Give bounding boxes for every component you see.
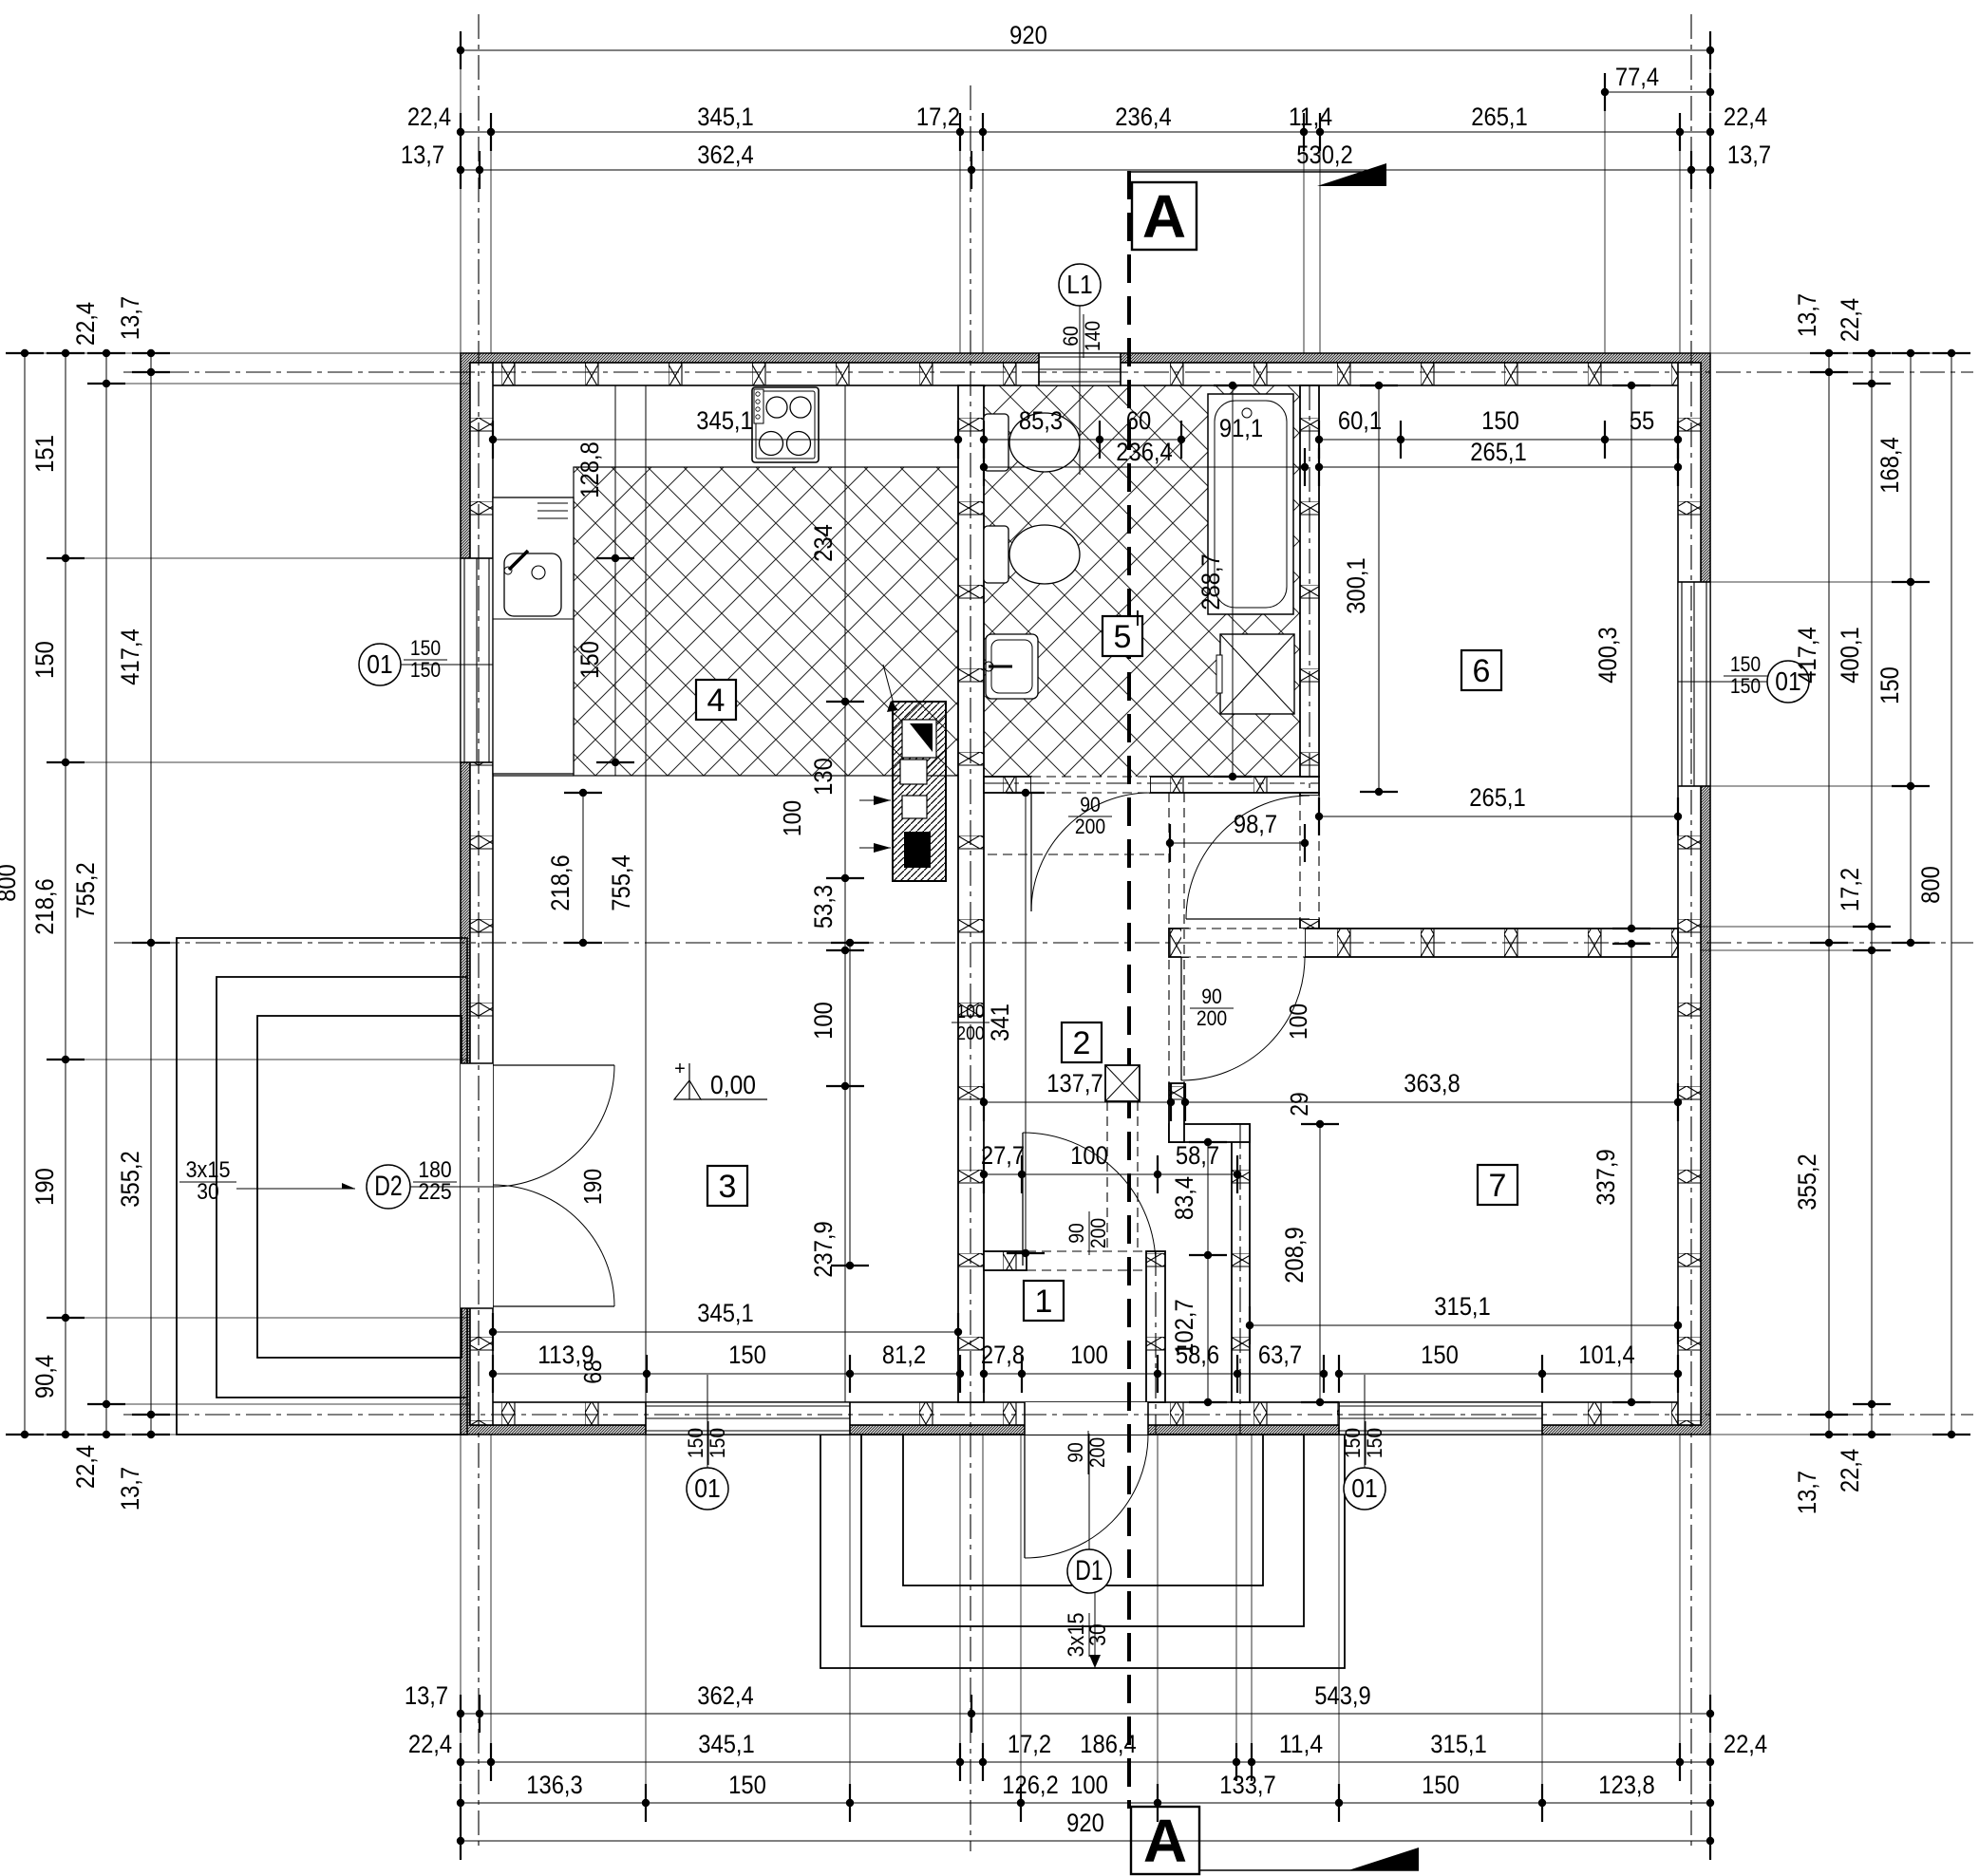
svg-text:363,8: 363,8: [1404, 1069, 1461, 1097]
svg-text:150: 150: [1730, 674, 1761, 698]
svg-text:L1: L1: [1066, 270, 1092, 299]
svg-text:100: 100: [956, 1002, 984, 1022]
svg-text:150: 150: [410, 636, 441, 660]
svg-text:137,7: 137,7: [1046, 1069, 1103, 1097]
svg-text:100: 100: [1284, 1004, 1312, 1040]
svg-text:168,4: 168,4: [1875, 437, 1904, 494]
svg-text:208,9: 208,9: [1280, 1227, 1309, 1284]
svg-text:345,1: 345,1: [697, 1299, 754, 1327]
svg-text:265,1: 265,1: [1471, 103, 1528, 131]
svg-text:400,1: 400,1: [1836, 627, 1864, 684]
svg-text:288,7: 288,7: [1197, 553, 1225, 610]
svg-text:90,4: 90,4: [30, 1355, 59, 1398]
svg-text:265,1: 265,1: [1470, 438, 1527, 466]
svg-text:237,9: 237,9: [809, 1221, 838, 1278]
svg-text:128,8: 128,8: [575, 441, 604, 498]
svg-text:800: 800: [0, 864, 21, 902]
svg-text:150: 150: [728, 1341, 766, 1369]
svg-text:150: 150: [1422, 1771, 1460, 1799]
svg-text:101,4: 101,4: [1578, 1341, 1635, 1369]
svg-text:200: 200: [1075, 815, 1105, 838]
svg-text:126,2: 126,2: [1002, 1771, 1059, 1799]
svg-text:22,4: 22,4: [71, 1445, 100, 1489]
svg-text:53,3: 53,3: [809, 885, 838, 929]
svg-text:60: 60: [1126, 406, 1152, 435]
svg-text:755,2: 755,2: [71, 862, 100, 919]
svg-text:186,4: 186,4: [1080, 1730, 1137, 1758]
svg-text:27,7: 27,7: [981, 1141, 1025, 1170]
svg-text:55: 55: [1630, 406, 1655, 435]
svg-text:01: 01: [367, 649, 392, 679]
svg-text:362,4: 362,4: [697, 141, 754, 169]
svg-text:341: 341: [986, 1004, 1014, 1041]
svg-text:27,8: 27,8: [981, 1341, 1025, 1369]
svg-text:400,3: 400,3: [1593, 627, 1622, 684]
svg-text:22,4: 22,4: [1836, 1449, 1864, 1492]
svg-text:755,4: 755,4: [607, 854, 635, 911]
svg-text:22,4: 22,4: [1724, 103, 1767, 131]
svg-text:355,2: 355,2: [116, 1151, 144, 1208]
svg-text:234: 234: [809, 524, 838, 562]
svg-text:6: 6: [1473, 653, 1491, 689]
svg-text:218,6: 218,6: [30, 878, 59, 935]
svg-text:345,1: 345,1: [697, 103, 754, 131]
svg-text:1: 1: [1035, 1284, 1053, 1320]
svg-text:68: 68: [578, 1360, 607, 1384]
svg-text:200: 200: [1085, 1437, 1109, 1468]
svg-text:265,1: 265,1: [1469, 783, 1526, 812]
svg-text:543,9: 543,9: [1314, 1681, 1371, 1710]
svg-text:150: 150: [1421, 1341, 1459, 1369]
svg-text:136,3: 136,3: [526, 1771, 583, 1799]
svg-text:91,1: 91,1: [1219, 414, 1263, 442]
svg-text:150: 150: [1363, 1428, 1386, 1458]
svg-text:13,7: 13,7: [405, 1681, 448, 1710]
svg-text:17,2: 17,2: [1008, 1730, 1051, 1758]
svg-text:90: 90: [1064, 1442, 1087, 1463]
svg-text:13,7: 13,7: [116, 1467, 144, 1510]
svg-text:17,2: 17,2: [1836, 868, 1864, 911]
svg-text:417,4: 417,4: [1793, 627, 1821, 684]
svg-text:123,8: 123,8: [1598, 1771, 1655, 1799]
svg-text:130: 130: [809, 758, 838, 796]
svg-text:190: 190: [30, 1168, 59, 1206]
svg-text:920: 920: [1066, 1809, 1104, 1837]
svg-text:345,1: 345,1: [696, 406, 753, 435]
svg-text:0,00: 0,00: [710, 1070, 756, 1099]
svg-text:315,1: 315,1: [1434, 1292, 1491, 1321]
svg-text:150: 150: [1875, 666, 1904, 704]
svg-text:150: 150: [1730, 652, 1761, 676]
svg-text:l: l: [1136, 607, 1140, 630]
svg-text:355,2: 355,2: [1793, 1154, 1821, 1210]
svg-text:11,4: 11,4: [1279, 1730, 1323, 1758]
svg-text:22,4: 22,4: [407, 103, 451, 131]
svg-text:150: 150: [728, 1771, 766, 1799]
svg-text:7: 7: [1489, 1168, 1507, 1204]
svg-text:100: 100: [1070, 1341, 1108, 1369]
svg-text:22,4: 22,4: [1836, 298, 1864, 342]
svg-text:151: 151: [30, 435, 59, 473]
svg-text:30: 30: [197, 1179, 219, 1205]
svg-text:22,4: 22,4: [408, 1730, 452, 1758]
svg-text:58,6: 58,6: [1176, 1341, 1219, 1369]
svg-text:2: 2: [1073, 1025, 1091, 1061]
svg-text:3: 3: [719, 1169, 737, 1205]
svg-text:133,7: 133,7: [1219, 1771, 1276, 1799]
svg-text:01: 01: [1351, 1473, 1377, 1503]
svg-text:150: 150: [1481, 406, 1519, 435]
svg-text:200: 200: [956, 1023, 984, 1044]
svg-text:22,4: 22,4: [1724, 1730, 1767, 1758]
svg-text:60: 60: [1059, 326, 1083, 347]
svg-text:150: 150: [706, 1428, 729, 1458]
svg-text:300,1: 300,1: [1342, 557, 1370, 614]
svg-text:800: 800: [1916, 866, 1945, 904]
svg-text:17,2: 17,2: [916, 103, 960, 131]
svg-text:337,9: 337,9: [1592, 1149, 1620, 1206]
svg-text:90: 90: [1065, 1223, 1088, 1244]
svg-text:+: +: [674, 1059, 686, 1079]
svg-text:13,7: 13,7: [401, 141, 444, 169]
svg-text:77,4: 77,4: [1615, 63, 1659, 91]
svg-text:13,7: 13,7: [1793, 293, 1821, 337]
svg-text:13,7: 13,7: [1793, 1471, 1821, 1514]
svg-text:100: 100: [1070, 1771, 1108, 1799]
svg-text:13,7: 13,7: [116, 296, 144, 340]
svg-text:90: 90: [1201, 985, 1222, 1008]
svg-text:D1: D1: [1075, 1555, 1103, 1586]
svg-text:63,7: 63,7: [1258, 1341, 1302, 1369]
svg-text:315,1: 315,1: [1430, 1730, 1487, 1758]
svg-text:5: 5: [1114, 619, 1132, 655]
svg-text:100: 100: [1070, 1141, 1108, 1170]
svg-text:200: 200: [1086, 1218, 1110, 1248]
svg-text:236,4: 236,4: [1115, 103, 1172, 131]
svg-text:A: A: [1142, 182, 1186, 251]
svg-text:530,2: 530,2: [1296, 141, 1353, 169]
svg-text:11,4: 11,4: [1289, 103, 1332, 131]
svg-text:920: 920: [1009, 21, 1047, 49]
svg-text:29: 29: [1285, 1092, 1313, 1116]
svg-text:150: 150: [684, 1428, 707, 1458]
svg-text:150: 150: [30, 641, 59, 679]
svg-text:83,4: 83,4: [1170, 1176, 1198, 1220]
svg-text:150: 150: [410, 658, 441, 682]
svg-text:100: 100: [778, 800, 806, 836]
svg-text:150: 150: [1341, 1428, 1365, 1458]
svg-text:140: 140: [1081, 321, 1104, 351]
svg-text:81,2: 81,2: [882, 1341, 926, 1369]
svg-text:150: 150: [575, 641, 604, 679]
svg-text:13,7: 13,7: [1727, 141, 1771, 169]
svg-text:22,4: 22,4: [71, 302, 100, 346]
svg-text:200: 200: [1197, 1006, 1227, 1030]
svg-text:85,3: 85,3: [1019, 406, 1063, 435]
svg-text:225: 225: [418, 1179, 451, 1205]
svg-text:100: 100: [809, 1002, 838, 1040]
svg-text:218,6: 218,6: [546, 854, 575, 911]
svg-text:236,4: 236,4: [1116, 438, 1173, 466]
svg-text:D2: D2: [374, 1171, 402, 1202]
svg-text:362,4: 362,4: [697, 1681, 754, 1710]
svg-text:90: 90: [1080, 793, 1101, 816]
svg-text:60,1: 60,1: [1338, 406, 1382, 435]
svg-text:417,4: 417,4: [116, 628, 144, 685]
svg-text:58,7: 58,7: [1176, 1141, 1219, 1170]
svg-text:190: 190: [578, 1169, 607, 1205]
svg-text:98,7: 98,7: [1234, 810, 1277, 838]
svg-text:4: 4: [707, 683, 726, 719]
svg-text:01: 01: [694, 1473, 720, 1503]
svg-text:345,1: 345,1: [698, 1730, 755, 1758]
